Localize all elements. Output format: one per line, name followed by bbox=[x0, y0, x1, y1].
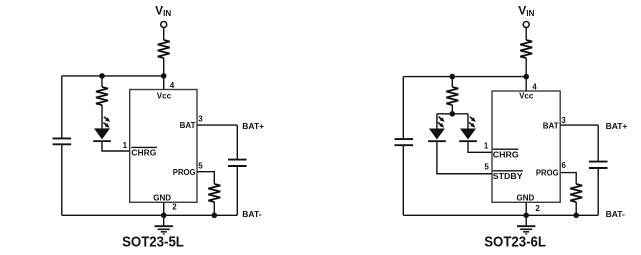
terminal circle VIN (right) bbox=[523, 22, 529, 28]
LED D3 cathode bar (right) bbox=[459, 140, 477, 142]
wire LED D3 to CHRG pin (right) bbox=[468, 141, 492, 152]
wire capacitor to BAT- rail (right) bbox=[597, 168, 599, 215]
svg-text:BAT: BAT bbox=[543, 121, 559, 130]
wire LED split horizontal (right) bbox=[437, 113, 468, 115]
pin STDBY overline (right) bbox=[493, 170, 523, 172]
LED D3 light arrow b (right) bbox=[469, 122, 472, 125]
wire capacitor to BAT- rail (left) bbox=[236, 166, 238, 215]
svg-text:6: 6 bbox=[561, 161, 566, 170]
svg-text:IN: IN bbox=[526, 9, 534, 18]
resistor R-LED (right) bbox=[446, 87, 458, 105]
svg-text:PROG: PROG bbox=[536, 169, 559, 178]
junction GND / bottom rail (right) bbox=[523, 213, 529, 219]
svg-text:2: 2 bbox=[172, 203, 177, 212]
svg-text:Vcc: Vcc bbox=[519, 92, 534, 101]
svg-text:CHRG: CHRG bbox=[493, 150, 519, 159]
terminal circle VIN (left) bbox=[161, 22, 167, 28]
svg-text:SOT23-6L: SOT23-6L bbox=[484, 234, 546, 250]
wire LED branch top (right) bbox=[451, 77, 453, 87]
svg-text:4: 4 bbox=[170, 81, 175, 90]
svg-text:BAT: BAT bbox=[180, 121, 196, 130]
capacitor C-BAT (right) bbox=[589, 162, 608, 168]
svg-text:2: 2 bbox=[535, 204, 540, 213]
wire bottom rail (right) bbox=[403, 214, 598, 216]
junction GND / bottom rail (left) bbox=[161, 213, 167, 219]
junction LED branch tap (left) bbox=[99, 73, 105, 79]
LED D1 light arrow b (left) bbox=[103, 123, 106, 126]
wire bottom rail (left) bbox=[62, 214, 238, 216]
svg-text:5: 5 bbox=[198, 161, 203, 170]
pin 5 wire STDBY lead (right) bbox=[437, 173, 492, 175]
wire VIN circle to resistor (left) bbox=[163, 28, 165, 40]
svg-text:V: V bbox=[518, 4, 526, 18]
LED D1 light arrow a (left) bbox=[104, 117, 107, 120]
LED D2 light arrow b (right) bbox=[438, 122, 441, 125]
wire top horizontal (left) bbox=[62, 75, 164, 77]
resistor R-VIN (left) bbox=[158, 40, 170, 58]
wire left rail lower (left) bbox=[61, 144, 63, 215]
junction VIN / top rail (right) bbox=[523, 74, 529, 80]
svg-text:BAT-: BAT- bbox=[242, 209, 261, 219]
pin 4 wire Vcc (left) bbox=[163, 76, 165, 90]
wire top horizontal (right) bbox=[403, 76, 526, 78]
IC U1 body SOT23-5L bbox=[130, 90, 197, 203]
wire left rail lower (right) bbox=[402, 145, 404, 215]
svg-text:4: 4 bbox=[532, 83, 537, 92]
svg-text:1: 1 bbox=[484, 141, 489, 150]
pin 6 wire PROG (right) bbox=[560, 173, 576, 184]
svg-text:BAT+: BAT+ bbox=[606, 121, 628, 131]
pin 2 wire GND (right) bbox=[525, 202, 527, 215]
wire LED branch top (left) bbox=[101, 76, 103, 87]
pin 4 wire Vcc (right) bbox=[525, 77, 527, 91]
capacitor C-IN (right) bbox=[395, 139, 414, 145]
svg-text:BAT-: BAT- bbox=[606, 209, 625, 219]
wire LED to CHRG pin (left) bbox=[102, 141, 130, 151]
LED D3 light arrow a (right) bbox=[470, 117, 473, 120]
wire down to LED D2 (right) bbox=[436, 114, 438, 129]
resistor R-VIN (right) bbox=[520, 40, 532, 58]
svg-text:IN: IN bbox=[163, 9, 171, 18]
wire BAT to capacitor (left) bbox=[236, 125, 238, 160]
ground symbol (right) bbox=[525, 215, 527, 226]
LED D2 cathode bar (right) bbox=[428, 140, 446, 142]
wire resistor to LED (left) bbox=[101, 105, 103, 128]
junction LED branch tap (right) bbox=[450, 74, 456, 80]
wire VIN circle to resistor (right) bbox=[525, 28, 527, 40]
resistor R-PROG (right) bbox=[570, 184, 582, 202]
LED D2 light arrow a (right) bbox=[439, 117, 442, 120]
LED D1 cathode bar (left) bbox=[93, 140, 111, 142]
svg-text:BAT+: BAT+ bbox=[242, 121, 264, 131]
wire resistor to split junction (right) bbox=[451, 105, 453, 114]
pin 5 wire PROG (left) bbox=[197, 172, 214, 184]
wire resistor to junction (left) bbox=[163, 58, 165, 76]
svg-text:Vcc: Vcc bbox=[157, 91, 172, 100]
junction LED split (right) bbox=[450, 111, 456, 117]
IC U2 body SOT23-6L bbox=[492, 91, 560, 202]
pin CHRG overline (left) bbox=[131, 146, 157, 148]
wire resistor to ground rail (left) bbox=[213, 202, 215, 215]
svg-text:GND: GND bbox=[517, 194, 535, 203]
svg-text:V: V bbox=[155, 4, 163, 18]
svg-text:CHRG: CHRG bbox=[131, 149, 156, 158]
wire resistor to junction (right) bbox=[525, 58, 527, 77]
pin 3 wire BAT (right) bbox=[560, 124, 598, 126]
junction VIN / top rail (left) bbox=[161, 73, 167, 79]
capacitor C-IN (left) bbox=[53, 138, 72, 144]
pin 2 wire GND (left) bbox=[163, 202, 165, 215]
svg-text:3: 3 bbox=[198, 115, 203, 124]
wire BAT to capacitor (right) bbox=[597, 125, 599, 162]
svg-text:SOT23-5L: SOT23-5L bbox=[122, 234, 184, 250]
svg-text:PROG: PROG bbox=[173, 168, 196, 177]
svg-text:3: 3 bbox=[561, 116, 566, 125]
wire down to LED D3 (right) bbox=[467, 114, 469, 129]
resistor R-PROG (left) bbox=[208, 184, 220, 202]
LED D3 triangle (right) bbox=[460, 129, 476, 140]
junction PROG resistor / bottom rail (right) bbox=[573, 213, 579, 219]
wire resistor to ground rail (right) bbox=[575, 202, 577, 215]
svg-text:5: 5 bbox=[484, 162, 489, 171]
svg-text:STDBY: STDBY bbox=[493, 172, 524, 181]
junction PROG resistor / bottom rail (left) bbox=[212, 213, 218, 219]
svg-text:GND: GND bbox=[153, 193, 171, 202]
LED D1 triangle (left) bbox=[94, 128, 110, 139]
pin CHRG overline (right) bbox=[493, 148, 519, 150]
svg-text:1: 1 bbox=[123, 141, 128, 150]
resistor R-LED (left) bbox=[96, 87, 108, 105]
capacitor C-BAT (left) bbox=[228, 160, 247, 166]
wire LED D2 to STDBY pin (right) bbox=[437, 141, 492, 174]
ground symbol (left) bbox=[163, 215, 165, 226]
wire left rail upper (left) bbox=[61, 76, 63, 138]
LED D2 triangle (right) bbox=[429, 129, 445, 140]
wire left rail upper (right) bbox=[402, 77, 404, 140]
pin 3 wire BAT (left) bbox=[197, 124, 237, 126]
